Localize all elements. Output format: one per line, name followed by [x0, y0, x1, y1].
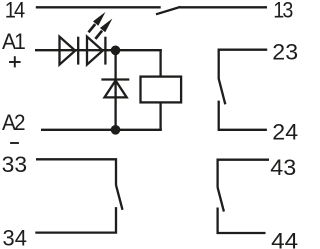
- wire 43: [218, 160, 269, 188]
- diode D1 (series polarity diode): [60, 37, 79, 65]
- svg-text:A1: A1: [2, 29, 26, 54]
- wire A1: [35, 49, 162, 51]
- svg-text:23: 23: [272, 40, 298, 65]
- wire coil to A2 line: [159, 102, 161, 131]
- wire down to coil: [159, 49, 161, 77]
- relay coil K1: [141, 77, 182, 103]
- svg-text:43: 43: [270, 155, 296, 180]
- svg-text:A2: A2: [2, 110, 25, 135]
- svg-text:14: 14: [5, 0, 25, 22]
- wire 14 to contact: [36, 6, 161, 8]
- svg-text:13: 13: [273, 0, 293, 22]
- contact blade 23-24: [219, 79, 226, 105]
- freewheeling diode triangle: [105, 81, 127, 98]
- svg-text:24: 24: [272, 120, 298, 145]
- wire A2: [41, 129, 162, 131]
- junction node A1/diodes: [111, 46, 121, 56]
- wire contact to 13: [180, 6, 267, 8]
- wire through freewheeling diode: [114, 50, 116, 130]
- wire 44: [218, 208, 266, 234]
- contact blade 33-34: [116, 185, 123, 210]
- svg-text:44: 44: [271, 229, 298, 249]
- wire 33: [36, 159, 116, 185]
- LED light arrow 2: [95, 19, 112, 39]
- junction node A2/diode: [111, 125, 121, 135]
- contact blade 13-14 (NO contact): [156, 7, 180, 14]
- contact blade 43-44: [218, 187, 224, 211]
- freewheeling diode cathode bar: [101, 78, 129, 80]
- svg-text:33: 33: [2, 152, 28, 177]
- wire 24: [219, 101, 267, 130]
- minus sign: [10, 142, 19, 144]
- wire 34: [35, 207, 116, 233]
- svg-text:34: 34: [3, 226, 27, 249]
- LED D2 (status indicator): [87, 37, 105, 65]
- LED light arrow 1: [89, 12, 106, 32]
- wire 23: [219, 50, 268, 79]
- plus sign: [9, 56, 21, 67]
